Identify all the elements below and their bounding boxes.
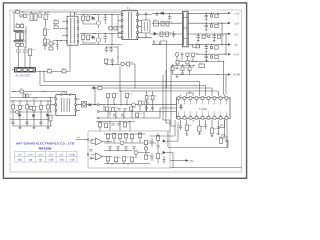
ground sym 1 [156,12,159,15]
svg-text:TL494: TL494 [199,107,207,111]
resistor R35 [23,94,25,98]
resistor R45 [113,94,116,98]
wire AC left drop [13,12,15,30]
svg-text:PS: PS [222,134,226,137]
wire box extra [146,138,152,161]
junction dot opto [94,104,95,105]
svg-text:+5V: +5V [234,33,239,36]
wire IC bottom drops [181,120,225,128]
transistor Q2 [96,38,100,42]
capacitor C20 [11,122,14,124]
capacitor C29 [204,122,207,130]
junction dots above-box [99,121,130,122]
resistor R51 [130,107,133,111]
wire opto out [87,88,104,105]
ground sym rail1 [205,19,208,21]
wire startup verticals [13,98,48,126]
connector pins left [99,105,103,118]
diode D2 [92,36,94,39]
wire above-box row [96,122,135,132]
svg-text:+12V: +12V [38,154,44,156]
wire rail cross links [222,23,226,54]
resistor R6 [48,70,52,73]
resistor R47 [126,94,129,98]
capacitor C2 electrolytic [20,33,24,40]
capacitor C8 [168,13,171,20]
wire T2 right [77,99,82,110]
resistor R15 [160,32,163,37]
svg-text:+5VSB: +5VSB [233,74,241,77]
label box stub [77,137,80,138]
small box PC1 [193,44,200,47]
resistor R13 [161,22,164,27]
ground sym 7 [185,134,188,135]
resistor R8 [87,16,90,21]
IC U1 bottom pin circles [177,116,228,119]
arrow -5V [228,43,231,45]
junction dot snubber [145,37,146,38]
label box FG [199,64,205,68]
schematic sheet frame [10,10,242,172]
T2 windings [62,98,70,112]
wire PG lower [219,120,227,148]
op-amp U2A [96,138,103,145]
capacitor C22 [39,122,42,124]
junction dots pwm [107,104,132,119]
svg-text:14A: 14A [28,159,32,162]
AC socket cells [17,68,33,71]
resistor R2b [21,25,24,28]
wire R column [44,26,46,50]
svg-text:0.8A: 0.8A [49,159,54,162]
wire mid cluster [106,57,135,91]
resistor R7 [82,16,85,21]
diode D10 [89,104,91,107]
resistor R40 [33,106,36,110]
resistor R69 [130,157,133,162]
junction dots box [107,133,158,164]
wire bus A [44,71,199,96]
fuse F1 [16,11,20,13]
wire to socket [19,56,31,68]
transformer T1 right pins [137,14,139,38]
wire startup top [10,97,56,99]
diode D9 [47,114,49,117]
wire left of IC verticals [163,66,176,126]
resistor R25 [176,61,179,65]
junction dot standby row3 [193,65,194,66]
wire box out3 [170,153,173,168]
spec table grid [15,152,78,163]
resistor R43 [49,115,52,121]
capacitor C41 [157,141,160,151]
resistor R42 [47,105,50,109]
wire driver mid [108,15,118,32]
capacitor C12 [197,34,200,39]
diode D8 [33,114,35,117]
capacitor C33 [117,124,120,126]
T3 right pin circles [77,21,79,43]
arrow +12V [228,12,231,14]
wire PG upper [218,120,225,137]
ground sym 9 [211,134,214,137]
capacitor CX2 block [30,14,33,21]
arrow +5V [228,33,231,35]
op-amp U2B [96,153,103,160]
wire box feed verticals [168,120,170,148]
resistor R68 [122,157,125,162]
capacitor C16 [181,53,184,54]
svg-text:+3.3V: +3.3V [233,53,240,56]
transistor Q6 [144,101,148,105]
ground sym 6 [47,126,50,129]
diode D7 [19,114,21,117]
resistor R6b [54,26,58,29]
resistor R10 [114,27,117,31]
capacitor C25 [113,115,116,117]
ground sym 3 [159,41,162,44]
resistor R65 [138,133,141,138]
wire secondary rails [150,13,182,44]
resistor R2 [44,39,47,46]
capacitor C37 [108,147,111,149]
resistor R24 [192,53,195,57]
arrow PG out [186,159,189,161]
capacitor C16b [176,68,179,69]
wire IC right vdd [224,62,227,95]
resistor R59 [123,123,126,128]
choke L2 inner bars [184,13,187,46]
svg-text:ART-SOUND ELECTRONICS CO., LTD: ART-SOUND ELECTRONICS CO., LTD [16,142,74,146]
capacitor C23 [118,109,121,111]
wire R53 gnd [186,131,188,135]
capacitor CX3 block [34,14,37,21]
junction dot PG [226,136,227,137]
resistor R44 [107,94,110,98]
transistor Q9 [29,106,33,110]
capacitor C18 [110,47,113,53]
svg-text:30A: 30A [18,159,22,162]
resistor R9 [109,27,112,31]
junction dot standby supply [13,91,44,92]
wire rails after choke [188,13,228,54]
box left edge pin circles [87,139,89,156]
wire bottom long [170,167,242,169]
capacitor C4 [23,47,28,59]
capacitor C3 [16,47,21,59]
wire bus C [92,88,212,96]
capacitor C40 [132,147,135,149]
resistor R58 [104,123,107,128]
wire snubber stub [145,17,147,38]
svg-text:+5VSB: +5VSB [68,154,75,156]
wire pwm to IC [148,105,176,118]
transistor Q4 [121,62,125,66]
wire return horizontal [36,70,70,72]
capacitor C42 [163,160,166,162]
resistor R27 [171,67,174,71]
drive transformer T2 body [56,95,76,116]
junction dots node [57,40,62,41]
capacitor C34 [90,141,93,143]
wire box right col [150,133,170,164]
wire pwm row1 [103,91,148,105]
wire R43 stub [50,121,52,126]
wire T1 right out [138,15,152,38]
wire under-IC bus [168,140,228,148]
resistor R56 [220,138,223,144]
ground sym 2 [153,40,156,43]
ground sym rail2 [205,28,208,30]
resistor R72 [196,45,199,48]
ground sym standby [176,75,179,78]
wire R73 link [45,12,47,26]
resistor R21 [215,46,218,49]
wire bus B [40,71,206,96]
wire startup horizontals [10,101,52,126]
capacitor C10 [205,13,208,19]
ground sym rail3a [197,39,200,41]
resistor R20 [218,35,221,38]
resistor R38 [19,105,22,109]
wire box row1 [104,134,150,143]
resistor R14 [166,22,169,27]
wire T3 left in [60,22,66,36]
capacitor C35 [90,150,93,152]
resistor R61 [112,134,115,139]
ground sym 10 [217,132,220,135]
resistor R29 [188,67,191,71]
resistor R16 [166,32,169,37]
capacitor C39 [124,147,127,149]
wire Q2 links [83,34,99,45]
IC pin numbers bottom [178,112,227,113]
varistor ZNR1 [20,15,23,18]
resistor R75 [144,141,147,145]
T2 left pin circles [55,98,57,111]
resistor R77 [145,96,148,100]
capacitor C6 [104,34,108,44]
inductor L3 [210,15,213,18]
resistor R32 [105,59,108,64]
diode D11 [163,140,165,142]
capacitor C5 [104,15,108,25]
component value labels (illegible at this scale) [15,9,226,158]
T3 winding bars [71,18,74,44]
wire box out2 [170,122,178,141]
IC U1 TL494 body [177,98,231,119]
supervisor box [88,131,170,168]
transistor Q11 [144,147,147,150]
resistor R71 [157,154,160,159]
resistor R2c [16,43,19,46]
svg-text:+3.3V: +3.3V [27,154,33,156]
capacitor C11 [205,23,208,29]
transistor Q10 [16,111,19,114]
wire standby supply [11,92,67,95]
resistor R37 [12,105,15,109]
svg-text:+12V: +12V [234,13,240,16]
inductor L7 [210,56,213,59]
wire T1 left pins [118,15,122,38]
wire standby row2 [176,54,224,61]
ground sym 8 [198,132,201,135]
capacitor C19 [111,58,114,65]
resistor R78 [151,96,154,100]
snubber C7 [142,20,151,33]
capacitor C31 [225,140,228,142]
junction dots startup top [35,97,51,98]
snubber inner bars [144,22,147,31]
transformer T1 winding bars [129,12,132,39]
capacitor C14 [205,45,208,51]
resistor R63 [124,134,127,139]
ground sym rail4 [205,50,208,52]
wire box stub left [76,139,87,141]
svg-text:-12V: -12V [234,23,239,26]
capacitor C24 [124,109,127,111]
wire T3 bottom drop [69,45,71,71]
wire pwm row2 [100,105,150,116]
capacitor C45 [150,142,153,144]
diode D5 [154,32,156,35]
capacitor C48 [151,108,154,109]
svg-text:PG: PG [190,160,194,163]
transformer T1 left pins [121,14,123,38]
capacitor C47 [145,108,148,109]
capacitor C46 [150,157,153,159]
output choke L2 body [182,11,188,47]
svg-text:T1: T1 [127,6,131,10]
wire pwm row3 [102,112,150,119]
optocoupler U3 [82,102,87,108]
inductor L4 [210,25,213,28]
ground sym 4 [19,126,22,129]
IC U1 bottom pin stubs [179,114,227,116]
resistor R6c [62,70,66,73]
junction dots mid [106,47,119,65]
capacitor C32 [111,124,114,126]
wire driver bottom [80,34,122,45]
resistor R18 [215,24,218,27]
capacitor C13 [213,34,216,39]
resistor R54 [198,126,201,132]
resistor R76 [144,155,147,159]
transistor Q1 [96,21,100,25]
resistor R2d [20,43,23,46]
wire bus D [120,91,218,96]
junction dots driver [83,14,112,45]
resistor R22 [215,55,218,58]
wire mid vertical [106,47,118,58]
wire opamp inputs [91,140,112,159]
diode D1 [92,17,94,20]
resistor R28 [181,67,184,71]
resistor R64 [130,134,133,139]
wire standby row3 [171,64,194,75]
junction dots standby row2 [191,61,224,62]
resistor R5 [49,47,53,50]
resistor R70 [157,136,160,141]
capacitor C21 [25,122,28,124]
capacitor CX1 [24,14,27,18]
wire T3 top stub [71,12,74,16]
inductor L5 [208,35,211,38]
wire Q1 links [83,15,99,29]
transistor Q8 [134,151,138,155]
resistor R26 [186,61,189,65]
wire cap column [23,26,26,48]
capacitor C1 electrolytic [16,33,19,40]
capacitor C15 [205,54,208,60]
wire box out arrow [170,160,186,162]
ground sym snubber [145,12,148,15]
wire IC top drops [181,91,225,97]
svg-text:PM-230W: PM-230W [39,147,52,151]
IC pin numbers top [178,103,227,104]
svg-text:-5V: -5V [234,44,238,47]
resistor R17 [215,14,218,17]
arrow +3.3V [228,53,231,55]
capacitor C9 [172,31,175,38]
transformer T1 body [122,11,138,40]
resistor R6a [54,21,58,24]
ground sym rail5 [205,60,208,62]
resistor R34 [98,86,102,89]
capacitor C28 [179,126,182,130]
bridge rectifier bar top [14,30,23,32]
svg-text:PG: PG [220,125,224,128]
transistor Q5 [132,103,136,107]
resistor R3 [29,49,32,56]
diode D6 [94,87,96,89]
capacitor C16c [181,73,184,74]
resistor R52 [136,113,139,117]
resistor R53 [185,125,188,131]
resistor R74 [20,90,24,93]
svg-text:-5V: -5V [60,154,64,156]
wire driver low rail [80,33,122,35]
resistor R12 [87,35,90,40]
resistor R33 [127,62,130,66]
diode D12 [163,151,165,153]
resistor R36 [26,94,28,98]
wire box row2 [104,148,150,158]
IC U1 top pin circles [177,97,228,100]
junction dots rails [198,13,227,76]
resistor R48 [139,101,142,105]
resistor R1b [44,29,47,36]
resistor R11 [82,35,85,40]
capacitor C17 [105,47,108,53]
resistor R73 [44,14,47,20]
T2 right pin circles [75,98,77,111]
diode pack D4 [154,21,159,26]
resistor R57 [98,123,101,128]
IC U1 top pin stubs [179,100,227,102]
resistor R1 [39,14,42,17]
T3 left pin circles [66,21,68,43]
optocoupler LED [83,103,86,106]
resistor R19 [202,35,205,38]
wire box row3 [104,161,150,166]
wire box out1 [170,120,175,136]
svg-text:1.5A: 1.5A [69,159,74,162]
arrow -12V [228,22,231,24]
resistor R49 [106,107,109,111]
svg-text:-12V: -12V [49,154,54,156]
resistor R60 [106,134,109,139]
